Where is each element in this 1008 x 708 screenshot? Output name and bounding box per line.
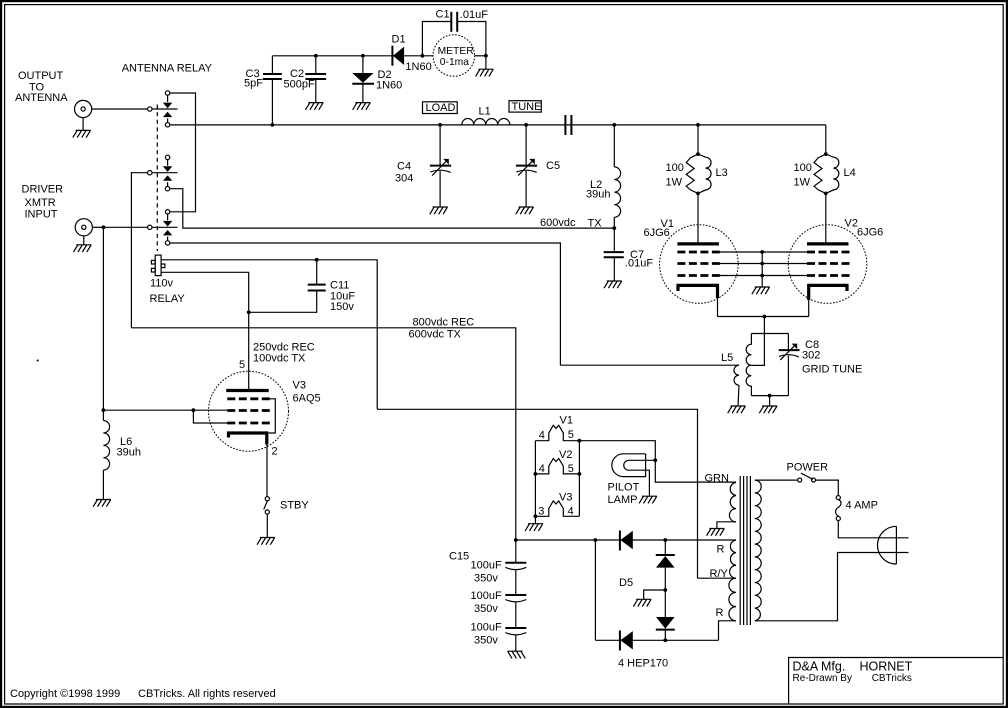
- svg-text:100: 100: [666, 162, 684, 174]
- inductor L1: [462, 106, 510, 125]
- wire bottom R tap to rectifier: [719, 621, 737, 641]
- svg-text:STBY: STBY: [280, 500, 309, 512]
- svg-text:LOAD: LOAD: [426, 102, 456, 114]
- svg-text:39uh: 39uh: [117, 447, 141, 459]
- svg-text:V1: V1: [560, 415, 573, 427]
- diode D5a: [620, 531, 633, 551]
- variable capacitor C8 302 grid tune: [779, 334, 863, 396]
- wire bridge bottom: [595, 639, 718, 641]
- svg-text:POWER: POWER: [787, 462, 829, 474]
- wire grid node to V3 grids: [103, 409, 227, 411]
- parasitic choke L4 100 1W: [794, 152, 856, 195]
- AC plug: [878, 526, 897, 564]
- svg-text:5: 5: [568, 429, 574, 441]
- svg-text:Re-Drawn By: Re-Drawn By: [793, 673, 852, 684]
- wire L4 to V2 plate: [825, 193, 827, 244]
- svg-text:LAMP: LAMP: [608, 494, 638, 506]
- svg-text:L3: L3: [716, 167, 728, 179]
- svg-text:304: 304: [395, 173, 413, 185]
- wire bridge center to ground: [644, 568, 666, 619]
- ground grid tank: [759, 406, 777, 413]
- wire heater supply to GRN: [579, 441, 736, 482]
- connector J2 driver xmtr input: [22, 184, 93, 236]
- parasitic choke L3 100 1W: [666, 152, 728, 195]
- svg-text:C1: C1: [436, 9, 450, 21]
- tube V1 6JG6: [644, 218, 739, 303]
- wire V3 cathode to STBY: [266, 445, 268, 497]
- svg-text:TUNE: TUNE: [512, 101, 542, 113]
- filter capacitor C15 100uF 350v x3: [449, 540, 526, 651]
- svg-text:5pF: 5pF: [244, 78, 263, 90]
- junction C5 bus: [524, 123, 528, 127]
- relay contact 2 pole: [148, 160, 178, 187]
- svg-text:350v: 350v: [474, 603, 498, 615]
- svg-text:R: R: [716, 607, 724, 619]
- ground filament rail: [525, 524, 543, 531]
- tube V3 6AQ5: [209, 371, 321, 451]
- svg-text:GRID TUNE: GRID TUNE: [802, 364, 862, 376]
- wire V1 grid row2 to V2: [720, 263, 807, 265]
- svg-text:100: 100: [794, 162, 812, 174]
- wire V3 screen to cathode: [268, 399, 275, 433]
- ground under C2: [306, 103, 324, 110]
- wire J2 to node A: [92, 226, 103, 228]
- wire to ground: [485, 56, 487, 69]
- relay mechanical linkage dashed: [156, 105, 158, 252]
- diode D2 1N60: [352, 56, 402, 103]
- svg-text:C15: C15: [449, 550, 469, 562]
- svg-text:1W: 1W: [794, 177, 811, 189]
- capacitor C2 500pF: [284, 56, 327, 103]
- ground under C7: [604, 281, 622, 288]
- junction V3 plate line / C11: [247, 310, 251, 314]
- wire V3 plate lead: [248, 390, 250, 392]
- ground under C4: [430, 207, 448, 214]
- svg-text:D5: D5: [619, 577, 633, 589]
- node TUNE box: [509, 101, 541, 113]
- svg-text:V2: V2: [845, 218, 858, 230]
- svg-text:1W: 1W: [666, 177, 683, 189]
- svg-text:350v: 350v: [474, 572, 498, 584]
- svg-text:V3: V3: [559, 491, 572, 503]
- svg-text:.01uF: .01uF: [460, 9, 488, 21]
- svg-text:3: 3: [538, 506, 544, 518]
- wire B+ to transformer R tap: [516, 539, 736, 541]
- wire cathode to grid tank tap: [751, 317, 764, 366]
- wire bus to L3: [697, 125, 699, 154]
- svg-text:R: R: [717, 544, 725, 556]
- svg-text:RELAY: RELAY: [150, 293, 186, 305]
- label 250vdc REC 100vdc TX: [253, 342, 315, 365]
- diode D5b: [656, 540, 675, 568]
- inductor L2 39uh: [586, 125, 621, 228]
- svg-text:500pF: 500pF: [284, 79, 315, 91]
- svg-text:100uF: 100uF: [471, 622, 502, 634]
- wire filament rail ground stem: [534, 516, 536, 523]
- wire J1 to relay contact 1 pole: [92, 108, 148, 110]
- wire bridge left column: [594, 540, 596, 640]
- wire B+ rail 800vdc: [131, 328, 515, 540]
- capacitor C7 .01uF: [604, 228, 654, 281]
- svg-text:6JG6: 6JG6: [857, 227, 883, 239]
- wire meter top rail: [272, 55, 392, 57]
- svg-text:4: 4: [539, 463, 545, 475]
- stray mark dot: [37, 360, 39, 362]
- inductor L6 39uh: [103, 410, 141, 499]
- svg-text:ANTENNA RELAY: ANTENNA RELAY: [122, 63, 213, 75]
- relay contact 3 top circle: [165, 210, 169, 214]
- relay contact 2 bottom circle: [165, 187, 169, 191]
- node LOAD box: [423, 102, 458, 114]
- grid tank secondary winding: [746, 334, 788, 396]
- ground L5 primary: [728, 406, 746, 413]
- capacitor C3 5pF: [244, 56, 282, 125]
- junction L2 C7: [612, 226, 616, 230]
- svg-text:100vdc TX: 100vdc TX: [253, 353, 306, 365]
- ground transformer GRN winding: [707, 529, 725, 536]
- svg-text:INPUT: INPUT: [25, 209, 58, 221]
- svg-text:600vdc TX: 600vdc TX: [409, 328, 462, 340]
- capacitor C1 .01uF: [422, 9, 488, 56]
- svg-text:XMTR: XMTR: [25, 197, 56, 209]
- svg-text:1N60: 1N60: [405, 61, 431, 73]
- svg-text:1N60: 1N60: [376, 80, 402, 92]
- svg-text:METER: METER: [438, 46, 474, 57]
- wire meter to ground node: [475, 55, 486, 57]
- diode D5d: [620, 631, 633, 651]
- ground under L6: [93, 500, 111, 507]
- wire V1 grid row1 to V2: [720, 251, 807, 253]
- wire V2 cathode down: [808, 300, 810, 317]
- svg-text:4 HEP170: 4 HEP170: [618, 658, 668, 670]
- junction bridge center tap: [663, 588, 667, 592]
- svg-text:100uF: 100uF: [471, 560, 502, 572]
- wire node A down to L6: [102, 227, 104, 410]
- svg-text:CBTricks: CBTricks: [872, 673, 912, 684]
- wire filament right rail: [578, 441, 580, 517]
- svg-text:5: 5: [568, 463, 574, 475]
- svg-text:110v: 110v: [150, 278, 174, 290]
- junction D2 top: [361, 54, 365, 58]
- filament V2 pins 4 5: [535, 449, 579, 475]
- svg-text:ANTENNA: ANTENNA: [15, 92, 68, 104]
- wire heater feed relay to R/Y: [377, 409, 697, 578]
- junction right rail V2: [578, 472, 582, 476]
- junction L3 bus: [696, 123, 700, 127]
- wire R/Y tap: [698, 577, 737, 579]
- wire grid jog to row3: [193, 410, 227, 423]
- svg-text:150v: 150v: [330, 301, 354, 313]
- filament V1 pins 4 5: [535, 415, 579, 442]
- svg-text:0-1ma: 0-1ma: [440, 57, 469, 68]
- svg-text:302: 302: [802, 350, 820, 362]
- junction meter right: [484, 54, 488, 58]
- svg-text:L5: L5: [721, 352, 733, 364]
- wire switch to fuse: [816, 480, 839, 496]
- wire tank ground stem: [769, 396, 771, 406]
- svg-text:DRIVER: DRIVER: [22, 184, 64, 196]
- svg-text:6AQ5: 6AQ5: [293, 393, 321, 405]
- diode D5c: [656, 617, 675, 640]
- relay contact 1 pole: [148, 95, 178, 122]
- svg-text:5: 5: [239, 359, 245, 371]
- svg-text:V2: V2: [559, 449, 572, 461]
- copyright note: [10, 688, 276, 700]
- svg-text:TX: TX: [588, 217, 603, 229]
- svg-text:HORNET: HORNET: [860, 660, 913, 674]
- wire cathode bus: [718, 316, 809, 318]
- svg-text:2: 2: [272, 445, 278, 457]
- wire node A to relay contact 3 pole: [103, 226, 147, 228]
- relay contact 3 bottom circle: [165, 241, 169, 245]
- wire GRN winding bottom to ground: [717, 522, 736, 529]
- relay contact 3 pole: [148, 214, 178, 241]
- meter M1 0-1ma: [433, 35, 475, 77]
- wire contact2 pole to B+ riser: [131, 173, 147, 328]
- junction coil top / C11: [315, 258, 319, 262]
- junction right rail V1: [578, 439, 582, 443]
- wire STBY to ground: [266, 514, 268, 537]
- wire V1 cathode down: [717, 298, 719, 317]
- ground screen grids: [752, 287, 770, 294]
- wire contact3 bottom to L5: [170, 243, 561, 365]
- junction left rail V3: [534, 514, 538, 518]
- pilot lamp: [608, 454, 656, 506]
- capacitor C11 10uF 150v: [249, 260, 356, 313]
- ground under STBY: [257, 538, 275, 545]
- relay contact 2 top circle: [165, 155, 169, 159]
- svg-text:L1: L1: [479, 106, 491, 118]
- wire filament left rail: [534, 441, 536, 517]
- svg-text:D1: D1: [392, 34, 406, 46]
- ground at meter: [476, 69, 494, 76]
- junction left rail V2: [534, 472, 538, 476]
- wire primary bottom to plug: [755, 553, 909, 621]
- svg-text:GRN: GRN: [705, 473, 730, 485]
- switch POWER: [755, 462, 828, 482]
- wire contact2 bottom 600vdc TX to L2: [170, 189, 615, 228]
- ground pilot lamp: [639, 496, 657, 503]
- svg-text:V3: V3: [293, 380, 306, 392]
- wire fuse to plug top prong: [838, 521, 908, 538]
- svg-text:600vdc: 600vdc: [540, 217, 576, 229]
- svg-text:4 AMP: 4 AMP: [846, 499, 878, 511]
- wire V1 grid row3 to V2: [720, 275, 807, 277]
- junction B+ C15: [514, 538, 518, 542]
- tube V2 6JG6: [788, 218, 883, 304]
- ground under J2: [74, 245, 92, 252]
- svg-text:4: 4: [568, 506, 574, 518]
- svg-text:C4: C4: [397, 161, 411, 173]
- svg-text:100uF: 100uF: [471, 590, 502, 602]
- svg-text:39uh: 39uh: [586, 189, 610, 201]
- ground bridge center: [633, 599, 651, 606]
- label 800vdc REC 600vdc TX: [409, 317, 475, 341]
- junction C4 bus: [438, 123, 442, 127]
- svg-text:Copyright ©1998 1999: Copyright ©1998 1999: [10, 688, 120, 700]
- svg-text:PILOT: PILOT: [608, 481, 640, 493]
- svg-text:800vdc REC: 800vdc REC: [413, 317, 475, 329]
- junction pilot lamp: [653, 458, 657, 462]
- variable capacitor C5: [516, 125, 560, 207]
- filament V3 pins 3 4: [535, 491, 579, 517]
- junction bridge left top: [594, 538, 598, 542]
- junction bridge right top: [663, 538, 667, 542]
- relay contact 1 top circle: [165, 91, 169, 95]
- relay contact 1 bottom circle: [165, 123, 169, 127]
- switch STBY: [264, 497, 310, 514]
- wire bus corner to L4: [825, 125, 827, 154]
- wire J2 to ground: [83, 236, 85, 245]
- svg-text:350v: 350v: [474, 634, 498, 646]
- junction C2 top: [314, 54, 318, 58]
- node A junction: [102, 225, 106, 229]
- label 600vdc TX: [540, 217, 602, 229]
- coupling capacitor plates: [565, 115, 571, 135]
- ground under C5: [516, 207, 534, 214]
- wire relay coil top to C11 and V3 feed: [161, 260, 377, 410]
- svg-text:6JG6: 6JG6: [644, 227, 670, 239]
- variable capacitor C4 304: [395, 125, 451, 207]
- junction D1 meter C1 branch: [421, 54, 425, 58]
- junction cathode bus: [763, 315, 767, 319]
- junction grid rows tie: [760, 250, 764, 287]
- svg-text:R/Y: R/Y: [710, 568, 729, 580]
- wire contact1 top to contact3 top: [170, 93, 196, 212]
- junction grid jog: [192, 408, 196, 412]
- wire J1 to ground: [82, 118, 84, 131]
- svg-text:L4: L4: [844, 167, 856, 179]
- ground under D2: [353, 103, 371, 110]
- relay coil K1 110v: [150, 255, 186, 305]
- svg-text:.01uF: .01uF: [625, 257, 653, 269]
- diode D1 1N60: [392, 34, 434, 73]
- fuse 4 AMP: [836, 496, 878, 521]
- svg-text:C5: C5: [546, 160, 560, 172]
- ground under J1: [73, 130, 91, 137]
- main bus wire contact1 bottom to PA plates: [170, 124, 826, 126]
- wire relay coil bottom to V3 plate line: [161, 272, 249, 390]
- connector J1 output to antenna: [15, 70, 92, 118]
- svg-text:4: 4: [539, 430, 545, 442]
- wire L3 to V1 plate: [697, 193, 699, 244]
- svg-text:D&A Mfg.: D&A Mfg.: [793, 660, 846, 674]
- transformer T1: [729, 476, 761, 625]
- junction C3 bus: [271, 123, 275, 127]
- junction L2 bus: [612, 123, 616, 127]
- junction bridge right bottom: [663, 638, 667, 642]
- junction tank ground: [768, 394, 772, 398]
- svg-text:OUTPUT: OUTPUT: [18, 70, 64, 82]
- grid coil L5: [560, 352, 739, 406]
- ground under C15: [508, 651, 526, 658]
- junction L6 grid node: [102, 408, 106, 412]
- svg-text:CBTricks. All rights reserved: CBTricks. All rights reserved: [138, 688, 276, 700]
- title block: [789, 658, 1003, 704]
